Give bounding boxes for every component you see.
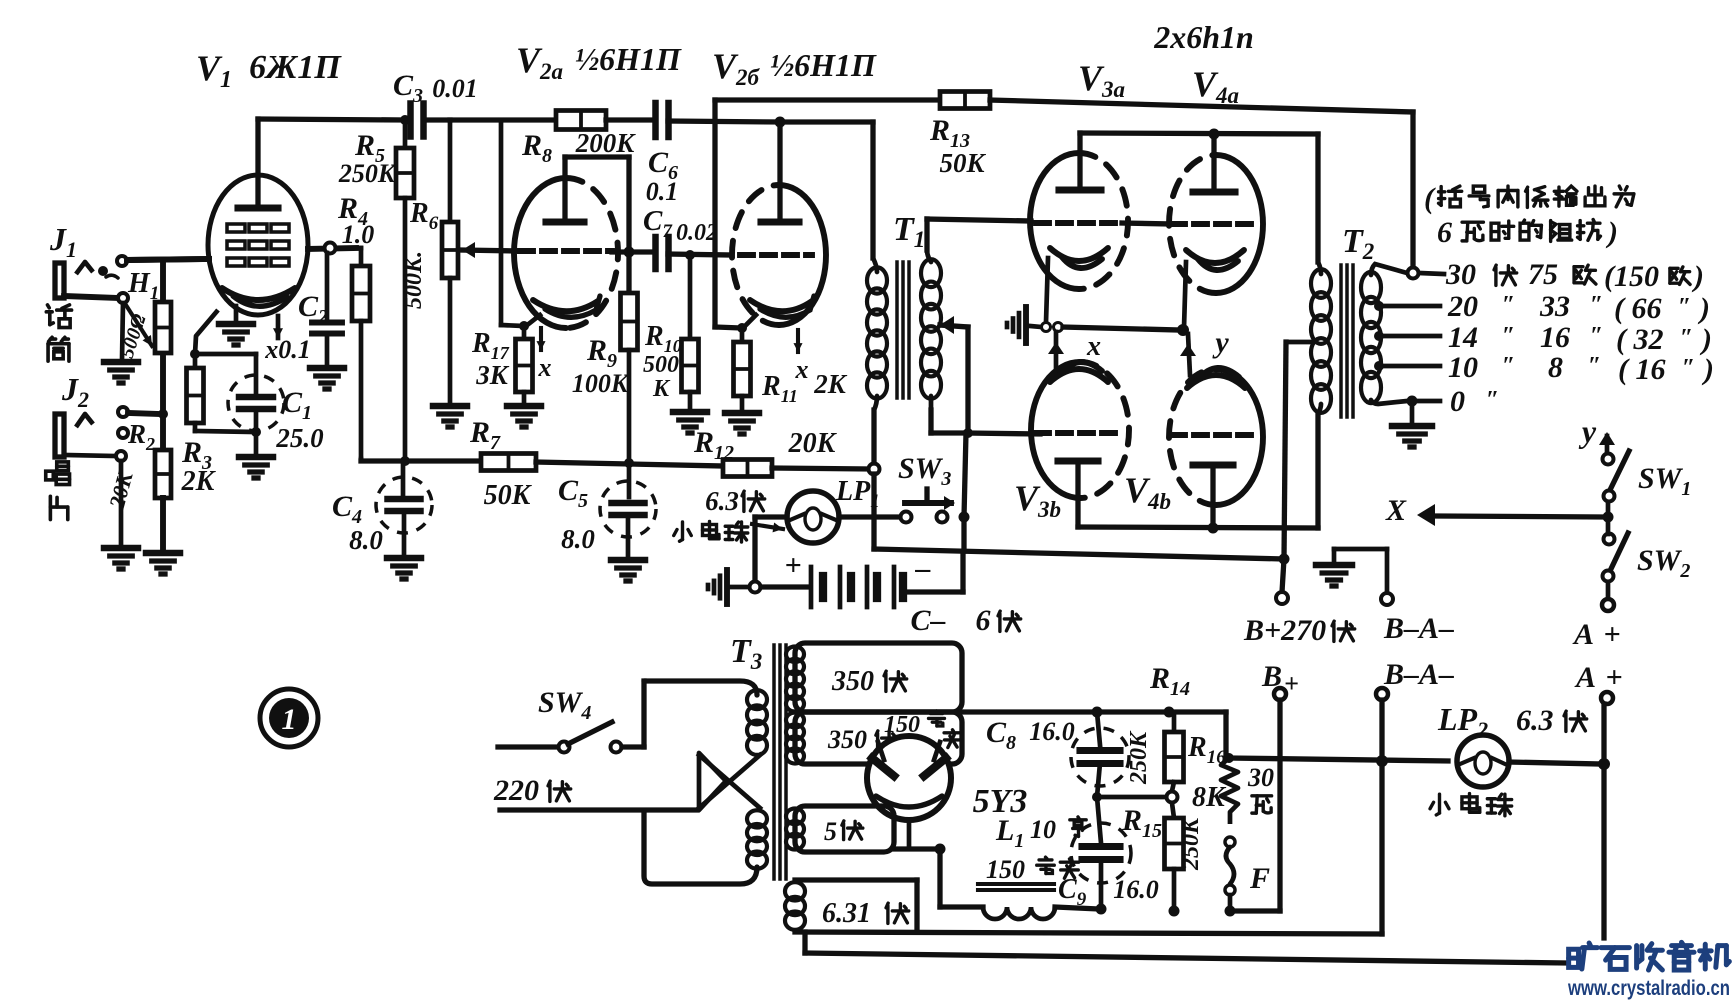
svg-text:www.crystalradio.cn: www.crystalradio.cn [1567,977,1730,1000]
svg-text:25.0: 25.0 [275,423,324,453]
capacitor C7 0.02 [652,237,659,269]
svg-text:+: + [1605,661,1622,694]
resistor R15 250K [1172,803,1174,818]
svg-text:1: 1 [282,703,297,736]
x0.1 marker [276,316,281,338]
feedback wire to T2 tap [990,100,1413,112]
T3 voltage selector cross [699,753,726,810]
capacitor C8 16.0 [1097,712,1100,745]
contact circle [64,296,117,298]
svg-text:R16: R16 [1187,732,1226,768]
svg-text:″: ″ [1502,323,1515,349]
svg-text:R11: R11 [761,371,798,406]
rectifier 5Y3 [867,736,951,820]
svg-text:( 32: ( 32 [1616,323,1664,356]
svg-text:): ) [1605,216,1618,249]
transformer T3 primary loop [641,681,646,747]
T1 CT arrow [940,316,954,334]
svg-text:350: 350 [827,725,867,754]
potentiometer R1 500ohm [155,302,171,353]
resistor R8 200K [556,111,606,130]
long wire to B+270V [874,549,1284,559]
svg-text:R8: R8 [521,129,552,167]
svg-text:33: 33 [1539,290,1570,323]
ground [122,303,123,360]
xiaodianzhu label with arrow [674,522,692,541]
svg-text:″: ″ [1588,353,1601,379]
5Y3 filament to divider [907,820,912,849]
B+ vertical [1277,700,1282,911]
svg-text:″: ″ [1590,323,1603,349]
divider wire to R14/R15 [1097,795,1166,800]
svg-text:A: A [1572,618,1594,651]
svg-text:–: – [915,552,931,585]
potentiometer R6 500K [448,120,453,222]
svg-text:V2a: V2a [516,40,563,84]
svg-text:x: x [795,355,809,384]
svg-text:5: 5 [824,817,837,846]
svg-text:C1: C1 [282,386,312,424]
V3b cathode lead with arrow [1054,332,1059,372]
svg-text:C4: C4 [332,490,362,528]
svg-text:220: 220 [493,774,539,807]
svg-text:6: 6 [976,604,991,637]
resistor R11 2K [740,328,745,342]
svg-text:( 66: ( 66 [1614,292,1662,325]
svg-text:16: 16 [1540,321,1570,354]
svg-text:C9: C9 [1058,874,1087,910]
svg-text:B–A–: B–A– [1383,658,1454,691]
x marker at V2b cathode [796,330,800,352]
svg-text:SW2: SW2 [1637,544,1690,582]
plate rail to T2 primary top [1080,133,1318,134]
svg-text:500: 500 [643,352,679,378]
wire [127,259,209,260]
V2b top rail to R13 [712,100,717,327]
tube V2b [779,185,826,325]
svg-text:R14: R14 [1149,662,1190,700]
svg-text:A: A [1574,661,1596,694]
svg-text:SW3: SW3 [898,452,951,490]
svg-text:16.0: 16.0 [1113,875,1159,904]
svg-text:x: x [1086,331,1101,362]
svg-text:″: ″ [1680,325,1693,351]
svg-text:8.0: 8.0 [349,525,383,555]
svg-text:K: K [652,376,671,402]
svg-text:0.1: 0.1 [646,177,679,206]
svg-text:50K: 50K [939,148,986,178]
bottom rail with R7 [359,459,364,461]
svg-text:V4b: V4b [1124,470,1171,514]
svg-text:C3: C3 [393,69,423,107]
svg-text:y: y [1212,326,1229,359]
svg-text:V2б: V2б [712,46,761,90]
capacitor C5 8.0 [627,463,632,497]
lower bus to B-A- [795,932,1382,934]
grid wire between upper tubes [1122,223,1172,224]
resistor R9 100K [621,293,638,350]
svg-text:10: 10 [1030,815,1056,844]
switch SW3 [839,514,901,519]
cathode X-Y row [1023,307,1029,343]
choke L1 10H [978,882,1054,886]
svg-text:″: ″ [1590,292,1603,318]
svg-text:″: ″ [1682,355,1695,381]
svg-text:R7: R7 [469,416,501,454]
svg-text:50K: 50K [484,480,533,511]
resistor R12 20K on heater rail [723,460,772,477]
feedback wire from R8 left [499,120,504,325]
svg-text:(150: (150 [1604,260,1659,293]
svg-text:C5: C5 [558,474,588,512]
Y arrow [1605,436,1610,452]
svg-text:½6Н1П: ½6Н1П [575,41,682,77]
svg-text:½6Н1П: ½6Н1П [770,47,877,83]
tube V2a [514,178,566,328]
resistor R17 3K [522,326,527,339]
svg-text:16.0: 16.0 [1029,717,1075,746]
resistor R5 250K [403,125,408,148]
svg-text:0.01: 0.01 [432,74,478,103]
svg-text:30: 30 [1247,763,1274,792]
svg-text:10: 10 [1448,351,1478,384]
tube V3a [1030,153,1079,289]
svg-text:B+270: B+270 [1243,614,1326,647]
svg-text:( 16: ( 16 [1618,353,1666,386]
svg-text:150: 150 [986,855,1025,884]
svg-text:0.02: 0.02 [676,220,718,246]
x marker at V2a cathode [539,328,543,350]
lowest bus to A+ [802,932,807,953]
svg-text:R13: R13 [929,114,970,152]
svg-text:6.3: 6.3 [1516,704,1554,737]
resistor 20K on J2 line [160,355,166,450]
ground by B-A- [1332,549,1337,563]
svg-text:x: x [538,353,552,382]
resistor R10 500K [688,255,693,339]
svg-text:″: ″ [1502,292,1515,318]
5V winding [795,806,894,852]
capacitor C2 0.1 [325,253,330,322]
T2 primary CT to B+ [1286,340,1312,345]
svg-text:6Ж1П: 6Ж1П [249,49,342,86]
svg-text:+: + [1603,618,1620,651]
heater rail through LP2 [1229,758,1448,761]
V1 plate [238,204,278,211]
svg-text:6: 6 [1437,216,1452,249]
watermark [1569,943,1598,969]
capacitor C9 16.0 [1097,797,1101,843]
20V tap [1374,301,1384,311]
svg-text:+: + [784,549,801,582]
svg-text:30: 30 [1445,258,1476,291]
V2a cathode [533,300,598,311]
HV center tap wire [795,709,1226,714]
svg-text:75: 75 [1528,258,1558,291]
svg-text:6.31: 6.31 [822,898,871,929]
X arrow wire [1437,516,1603,517]
svg-text:X: X [1385,494,1407,527]
capacitor C6 0.1 [652,103,659,137]
svg-text:20K: 20K [788,428,838,459]
capacitor C4 8.0 [401,461,406,494]
jack J1 [55,263,64,298]
svg-text:V3a: V3a [1078,58,1125,102]
svg-text:3K: 3K [475,360,510,390]
0 tap [1407,396,1418,407]
V1 screen lead [195,310,218,354]
svg-text:H1: H1 [127,268,159,304]
switch SW2 [1604,534,1615,545]
V4b cathode lead with arrow [1188,334,1190,375]
resistor R3 2K [193,354,198,368]
svg-text:V4a: V4a [1192,64,1239,108]
tube V3b [1031,362,1080,498]
bias vertical line [964,433,966,517]
svg-text:): ) [1699,323,1712,356]
svg-text:T1: T1 [893,211,925,252]
svg-text:LP2: LP2 [1437,701,1488,742]
tube V4b [1216,369,1263,505]
R16 8K 30W dropper [1223,712,1228,756]
resistor R13 50K [940,92,990,109]
wire to V1 grid [127,259,209,260]
svg-text:V1: V1 [196,48,232,93]
V1 grid boxes [227,224,245,232]
V2b grid [740,252,812,258]
svg-text:″: ″ [1486,387,1499,413]
svg-text:R17: R17 [471,328,510,363]
label record (chang pian) [46,462,70,485]
220V lower wire [500,807,697,812]
lower plate rail to T2 primary bottom [1078,527,1318,528]
svg-text:): ) [1701,353,1714,386]
switch SW1 [1603,454,1614,465]
tube V4a [1216,155,1263,293]
capacitor C1 25.0 [195,352,256,357]
T2 secondary [1371,264,1407,275]
svg-text:R9: R9 [586,334,617,372]
svg-text:0: 0 [1450,385,1465,418]
svg-text:F: F [1249,862,1270,895]
svg-text:J1: J1 [49,221,77,262]
svg-text:C–: C– [910,604,945,637]
svg-text:350: 350 [831,666,874,697]
wire grid to C7 [612,249,652,254]
svg-text:J2: J2 [61,371,89,412]
svg-text:SW4: SW4 [538,686,591,724]
T3 core [772,645,776,879]
6.3V winding [795,877,917,882]
svg-text:R2: R2 [127,419,155,454]
14V tap [1374,331,1384,341]
label mic (hua tong) [46,305,71,328]
svg-text:2K: 2K [181,466,217,497]
svg-text:8K: 8K [1192,782,1227,813]
svg-text:): ) [1697,292,1710,325]
circled figure 1 [260,689,318,747]
lamp LP1 [787,491,839,543]
svg-text:R12: R12 [693,426,734,464]
svg-text:″: ″ [1502,353,1515,379]
wires around LP1 [871,474,876,549]
svg-text:6.3: 6.3 [705,486,739,516]
svg-text:200K: 200K [575,128,637,158]
V2b cathode [750,300,812,311]
30V tap [1408,268,1419,279]
svg-text:20K: 20K [104,468,138,512]
svg-text:R10: R10 [644,321,682,356]
V1 cathode [222,288,295,300]
svg-text:): ) [1691,260,1704,293]
svg-text:R15: R15 [1121,804,1162,842]
svg-text:SW1: SW1 [1638,462,1691,500]
terminal circle under T1 [869,464,880,475]
svg-text:x0.1: x0.1 [264,335,311,364]
svg-text:250K: 250K [338,159,397,188]
svg-text:1.0: 1.0 [342,220,375,249]
node: grid circle [308,248,356,249]
svg-text:250K: 250K [1126,730,1152,785]
svg-text:2x6h1n: 2x6h1n [1153,19,1254,55]
svg-text:2K: 2K [813,369,848,399]
V2a grid [520,248,612,254]
svg-text:T3: T3 [730,633,762,674]
svg-text:C2: C2 [298,290,328,328]
svg-text:B–A–: B–A– [1383,612,1454,645]
svg-text:R6: R6 [409,198,439,234]
svg-text:250K: 250K [1178,816,1204,871]
capacitor C3 0.01 [407,104,414,137]
bottom filter wire [1230,908,1280,913]
svg-text:″: ″ [1678,294,1691,320]
svg-text:14: 14 [1448,321,1478,354]
svg-text:8: 8 [1548,351,1563,384]
svg-text:y: y [1578,413,1597,449]
T3 HV secondary 350V+350V [795,643,962,712]
resistor R4 1.0 [356,246,361,251]
battery C- 6V [761,584,809,589]
lamp LP2 [1457,735,1509,787]
V1 plate wire to C3 [258,119,405,120]
svg-text:500K.: 500K. [401,251,427,309]
10V tap [1374,361,1384,371]
svg-text:(: ( [1424,182,1436,215]
svg-text:C8: C8 [986,716,1016,754]
tube V1 6Zh1P [208,175,308,315]
svg-text:C7: C7 [643,205,673,242]
svg-text:8.0: 8.0 [561,524,595,554]
svg-text:T2: T2 [1342,223,1374,264]
B-A- vertical to lower bus [1379,700,1384,934]
svg-text:100K: 100K [572,369,630,398]
svg-text:20: 20 [1447,290,1478,323]
wire top rail [450,117,556,122]
